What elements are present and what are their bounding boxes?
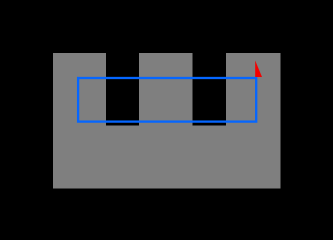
red flag (triangle at top-right corner of blue rectangle)	[255, 61, 262, 78]
merlon 3 (right battlement block)	[226, 53, 280, 126]
castle base wall	[53, 126, 280, 189]
merlon 1 (left battlement block)	[53, 53, 106, 126]
blue path rectangle outline	[78, 78, 256, 122]
merlon 2 (middle battlement block)	[139, 53, 193, 126]
